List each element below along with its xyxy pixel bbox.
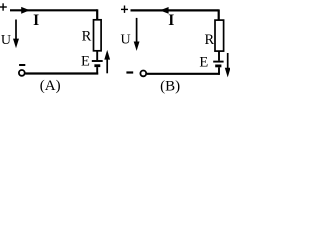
battery E short plate (A) <box>94 64 100 67</box>
emf arrow down (B) <box>225 53 231 77</box>
battery E long plate (B) <box>213 61 223 63</box>
current arrow I (B) <box>160 7 169 14</box>
svg-text:U: U <box>1 33 11 48</box>
svg-text:E: E <box>81 54 90 70</box>
svg-text:I: I <box>33 12 39 29</box>
wire bottom (B) <box>147 73 220 75</box>
voltage arrow U (A) <box>13 20 19 49</box>
battery E short plate (B) <box>215 65 221 68</box>
svg-text:(B): (B) <box>160 78 180 94</box>
wire bottom (A) <box>25 72 98 74</box>
wire right-top corner (B) <box>218 9 220 20</box>
terminal circle (A) <box>19 70 25 76</box>
svg-text:I: I <box>168 12 174 29</box>
minus terminal label (B) <box>126 71 133 73</box>
svg-text:(A): (A) <box>40 78 61 94</box>
resistor R (B) <box>215 20 224 51</box>
svg-text:U: U <box>120 32 130 47</box>
svg-text:E: E <box>199 54 208 70</box>
battery E long plate (A) <box>92 60 103 62</box>
resistor R (A) <box>94 20 102 51</box>
svg-text:R: R <box>204 32 214 48</box>
minus terminal label (A) <box>19 64 25 66</box>
current arrow I (A) <box>21 7 30 14</box>
wire resistor to battery (A) <box>96 51 98 60</box>
plus terminal label (A) <box>0 3 7 10</box>
terminal circle (B) <box>140 71 146 77</box>
wire battery to bottom (B) <box>218 67 220 75</box>
emf arrow up (A) <box>104 50 110 73</box>
plus terminal label (B) <box>121 6 128 13</box>
wire right-top corner (A) <box>96 9 98 19</box>
svg-text:R: R <box>82 29 92 45</box>
wire battery to bottom (A) <box>96 67 98 74</box>
wire resistor to battery (B) <box>218 51 220 61</box>
wire top (A) <box>10 9 97 11</box>
wire top (B) <box>131 9 219 11</box>
voltage arrow U (B) <box>134 18 140 51</box>
